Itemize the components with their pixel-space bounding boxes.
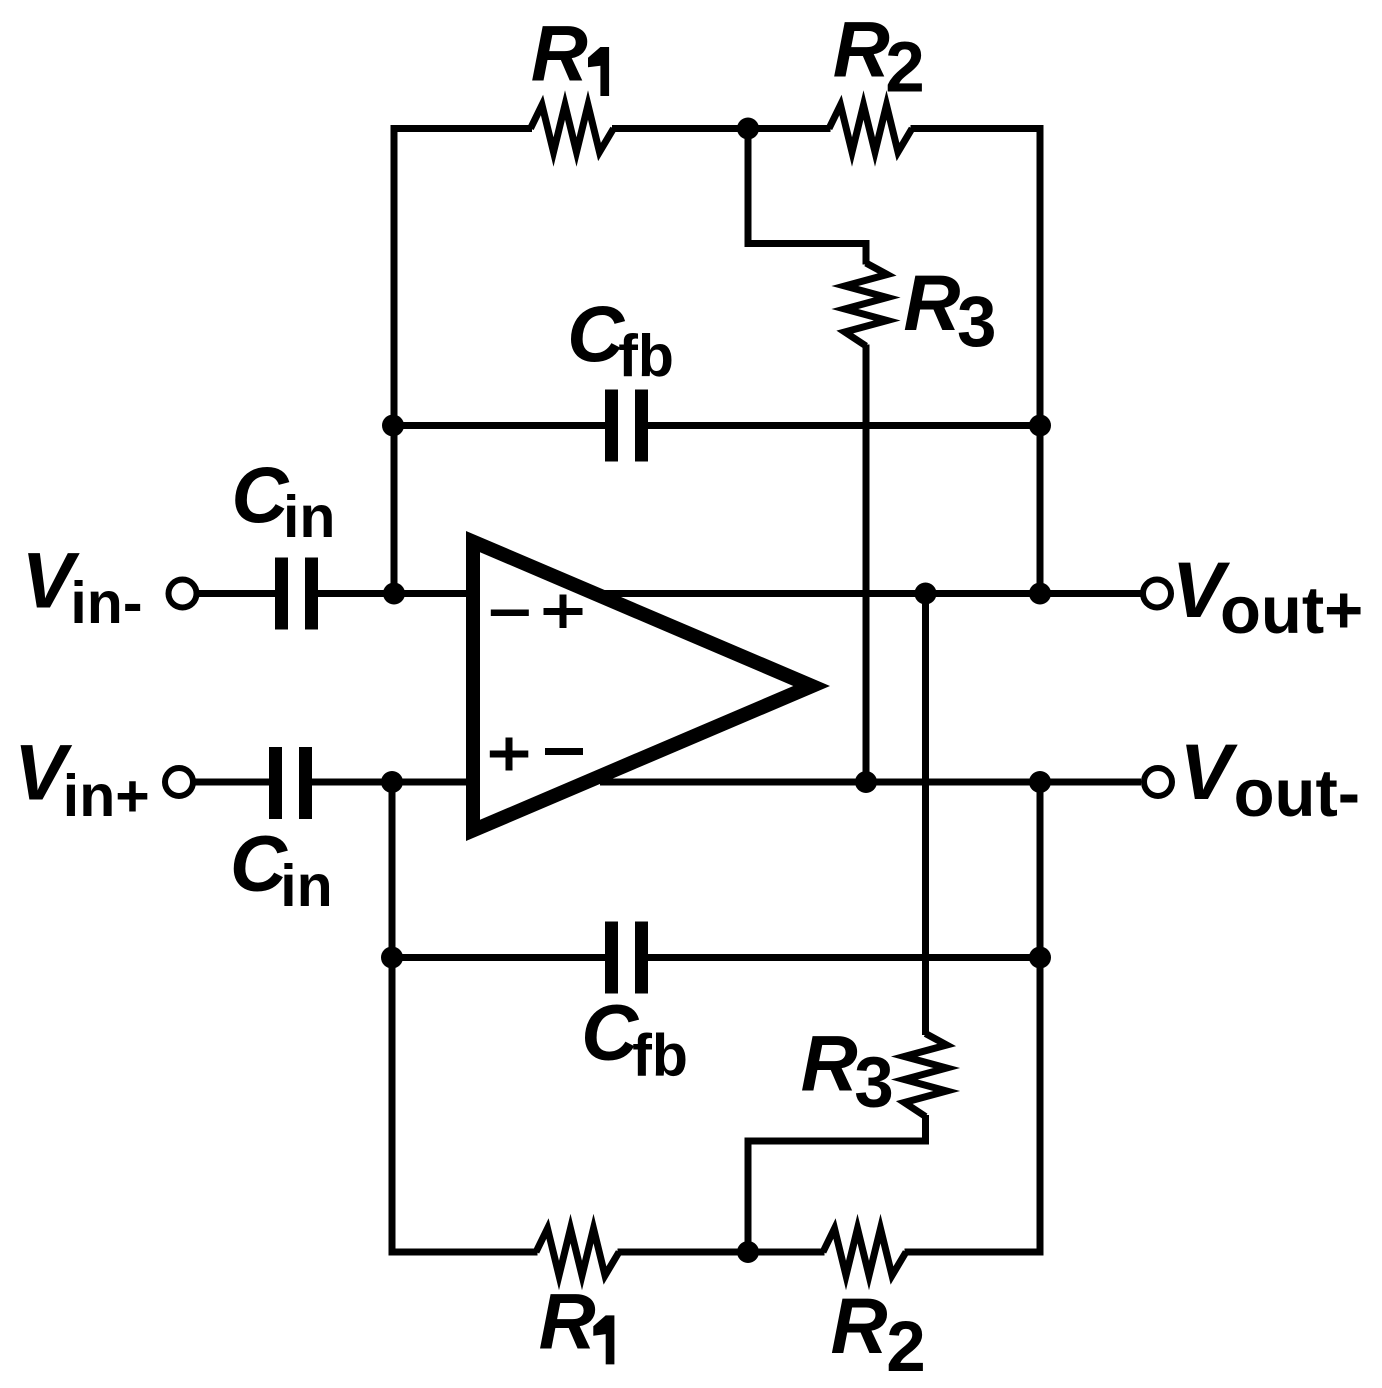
svg-text:in: in: [283, 484, 335, 550]
wire Cin top to op-amp input: [317, 590, 480, 597]
svg-text:3: 3: [957, 283, 997, 362]
svg-text:R: R: [801, 1019, 858, 1108]
capacitor Cin (top) plates: [275, 558, 288, 630]
wire Cin bottom to op-amp input: [310, 779, 480, 786]
node dot input top: [383, 583, 405, 605]
resistor R1 (bottom) zigzag: [536, 1229, 619, 1276]
wire Vout+ line: [600, 590, 1141, 597]
svg-text:C: C: [231, 450, 289, 539]
node dot Vout+ R3: [915, 583, 937, 605]
resistor R3 (top) vertical zigzag: [845, 263, 887, 346]
wire top wire right segment + right top rail: [911, 129, 1041, 594]
wire Cfb bottom line right segment: [648, 954, 1040, 961]
node dot Vout+ right rail: [1029, 583, 1051, 605]
wire Cfb top line left segment: [394, 422, 605, 429]
wire bottom R3 rail from Vout+ node: [922, 594, 929, 1036]
svg-text:V: V: [1180, 727, 1239, 816]
wire Cfb bottom line left segment: [392, 954, 605, 961]
node dot Cfb bottom left: [381, 947, 403, 969]
svg-text:in: in: [280, 853, 332, 919]
terminal Vin-: [169, 580, 197, 608]
svg-text:in-: in-: [70, 570, 142, 636]
wire Vout- line: [600, 779, 1141, 786]
svg-text:2: 2: [886, 1308, 926, 1387]
wire Vin+ lead: [193, 779, 269, 786]
wire R3 top down to Vout- line: [863, 345, 870, 783]
wire bottom between R1 and R2: [618, 1249, 825, 1256]
node dot Vout- R3: [855, 771, 877, 793]
resistor R1 (top) zigzag: [531, 105, 614, 152]
svg-text:C: C: [581, 988, 639, 1077]
op-amp minus (top input): [491, 610, 529, 617]
wire bottom wire right segment + right bottom rail: [905, 782, 1041, 1252]
capacitor Cfb (bottom) plates: [605, 922, 618, 994]
svg-text:R: R: [833, 4, 890, 93]
node dot Cfb top left: [382, 415, 404, 437]
svg-text:2: 2: [885, 29, 925, 108]
wire top junction drop to jog: [748, 129, 866, 265]
op-amp minus (bottom output side): [545, 748, 583, 755]
node dot bottom R1-R2 junction: [737, 1241, 759, 1263]
op-amp plus (top output side): [544, 608, 583, 615]
terminal Vout-: [1144, 768, 1172, 796]
op-amp plus (bottom input): [490, 751, 529, 758]
svg-text:fb: fb: [632, 1022, 688, 1088]
svg-text:fb: fb: [618, 323, 674, 389]
svg-text:C: C: [567, 289, 625, 378]
wire Vin- lead: [196, 590, 275, 597]
svg-text:R: R: [831, 1281, 888, 1370]
terminal Vin+: [165, 768, 193, 796]
svg-text:in+: in+: [63, 763, 150, 829]
wire left top rail + top wire left segment: [394, 129, 532, 594]
wire top between R1 and R2: [612, 125, 831, 132]
wire left bottom rail: [392, 782, 538, 1252]
svg-text:R: R: [539, 1277, 596, 1366]
terminal Vout+: [1143, 580, 1171, 608]
node dot input bottom: [381, 771, 403, 793]
node dot Cfb bottom right: [1029, 947, 1051, 969]
wire bottom R3 lead to jog: [748, 1115, 926, 1252]
node dot Vout- right rail: [1029, 771, 1051, 793]
wire Cfb top line right segment: [648, 422, 1040, 429]
op-amp U1 triangle: [466, 531, 830, 841]
svg-text:R: R: [903, 258, 960, 347]
svg-text:C: C: [230, 818, 288, 907]
capacitor Cfb (top) plates: [605, 390, 618, 462]
node dot top R1-R2 junction: [737, 118, 759, 140]
resistor R3 (bottom) vertical zigzag: [904, 1034, 946, 1117]
resistor R2 (top) zigzag: [829, 105, 912, 152]
svg-text:3: 3: [854, 1043, 894, 1122]
capacitor Cin (bottom) plates: [269, 747, 282, 819]
resistor R2 (bottom) zigzag: [823, 1229, 906, 1276]
node dot Cfb top right: [1029, 415, 1051, 437]
svg-text:out-: out-: [1234, 756, 1360, 831]
svg-text:out+: out+: [1220, 573, 1363, 648]
svg-text:R: R: [531, 8, 588, 97]
